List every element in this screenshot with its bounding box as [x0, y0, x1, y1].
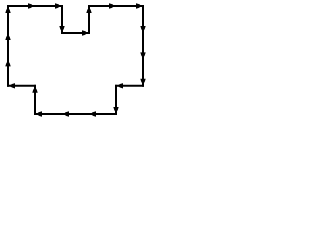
- arrowhead 1 pointing right: [28, 3, 34, 8]
- wire left edge (L up to A): [7, 6, 9, 86]
- arrowhead 5 pointing up: [86, 7, 91, 13]
- wire right edge (F down to G): [142, 6, 144, 86]
- arrowhead 7 pointing right: [136, 3, 142, 8]
- wire notch bottom (C right to D): [62, 32, 89, 34]
- arrowhead 2 pointing right: [55, 3, 61, 8]
- arrowhead 4 pointing right: [82, 30, 88, 35]
- wire top edge right (E to F, rightward): [89, 5, 143, 7]
- arrowhead 20 pointing up: [5, 7, 10, 13]
- wire top edge left (A to B, rightward): [8, 5, 62, 7]
- arrowhead 6 pointing right: [109, 3, 115, 8]
- arrowhead 13 pointing left: [90, 111, 96, 116]
- wire notch left side (B down to C): [61, 6, 63, 33]
- arrowhead 3 pointing down: [59, 26, 64, 32]
- wire left step horizontal (K left to L): [8, 85, 35, 87]
- wire left step vertical (J up to K): [34, 86, 36, 114]
- arrowhead 9 pointing down: [140, 52, 145, 58]
- wire bottom edge (I left to J): [35, 113, 116, 115]
- arrowhead 17 pointing left: [9, 83, 15, 88]
- arrowhead 10 pointing down: [140, 79, 145, 85]
- wire notch right side (D up to E): [88, 6, 90, 33]
- arrowhead 15 pointing left: [36, 111, 42, 116]
- wire right step vertical (H down to I): [115, 86, 117, 114]
- arrowhead 19 pointing up: [5, 34, 10, 40]
- arrowhead 16 pointing up: [32, 87, 37, 93]
- arrowhead 18 pointing up: [5, 61, 10, 67]
- arrowhead 12 pointing down: [113, 107, 118, 113]
- arrowhead 14 pointing left: [63, 111, 69, 116]
- arrowhead 11 pointing left: [117, 83, 123, 88]
- arrowhead 8 pointing down: [140, 26, 145, 32]
- wire right step horizontal (G left to H): [116, 85, 143, 87]
